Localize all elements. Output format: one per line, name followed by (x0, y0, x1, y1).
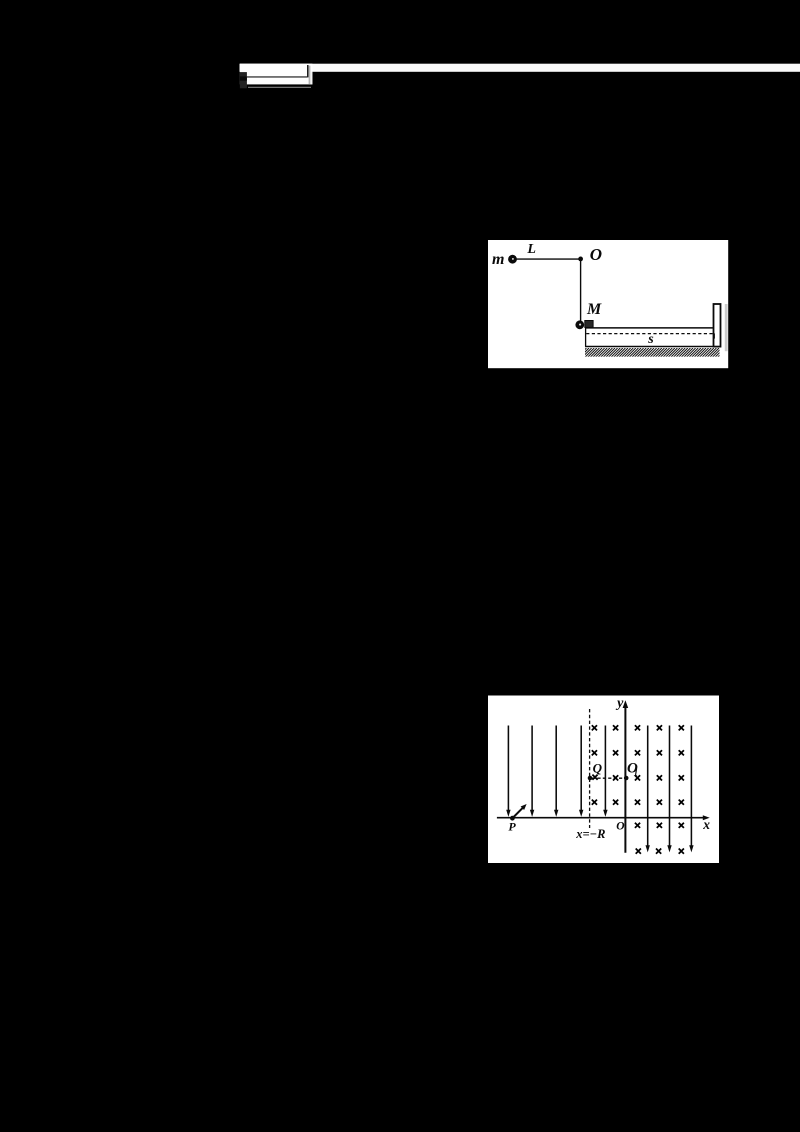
figure 1 white background (488, 240, 728, 368)
B field crosses row 4 (592, 800, 597, 805)
figure 2 white background (488, 696, 719, 864)
x axis (497, 817, 705, 819)
svg-text:P: P (508, 820, 516, 834)
x axis arrowhead (703, 815, 710, 820)
ball m (508, 255, 517, 264)
point O1 dot (624, 776, 629, 781)
lower ball (575, 320, 584, 329)
B field crosses row 2 (592, 750, 597, 755)
dark ball+block remnant (240, 72, 247, 88)
point Q dot (588, 776, 593, 781)
point P dot (510, 816, 515, 821)
board top line (585, 327, 713, 329)
y axis arrowhead (623, 700, 629, 708)
svg-text:s: s (647, 332, 654, 347)
svg-text:M: M (586, 301, 602, 318)
svg-text:y: y (615, 696, 624, 711)
dashed horizontal Q to O1 (592, 777, 626, 779)
B field crosses row 5 (635, 823, 640, 828)
string vertical (580, 259, 582, 325)
board dashed line s (586, 333, 713, 335)
velocity arrow at P (513, 807, 524, 818)
white fragment block (240, 64, 313, 85)
svg-text:m: m (492, 251, 504, 268)
wall gray shadow (309, 66, 311, 84)
dashed line end tick in wall (713, 333, 715, 338)
E field arrow 1 (507, 726, 509, 812)
white strip across top (240, 64, 800, 72)
track line of fragment (247, 76, 307, 77)
B field crosses row 6 (636, 849, 641, 854)
block M (585, 321, 593, 328)
B field crosses row 3 (592, 775, 597, 780)
dashed vertical line x=-R (589, 709, 591, 828)
E field arrow 2 (531, 726, 533, 812)
wall line of fragment (307, 65, 309, 77)
E field arrow 3 (555, 726, 557, 812)
B field crosses row 1 (592, 725, 597, 730)
board left edge (585, 328, 587, 347)
gray strip right of wall (725, 304, 728, 351)
long field arrow 2 right of axis (669, 726, 671, 848)
svg-text:x=−R: x=−R (575, 827, 605, 841)
darker core of remnant (240, 76, 247, 80)
wall white fill below strip (310, 72, 312, 85)
y axis (624, 706, 626, 853)
svg-text:O: O (590, 245, 602, 264)
svg-text:L: L (526, 242, 536, 257)
svg-text:x: x (702, 817, 710, 832)
string horizontal (517, 258, 581, 260)
fragment gray sliver line (248, 86, 311, 89)
E field arrow 4 (580, 726, 582, 812)
ground hatching (577, 348, 727, 357)
long field arrow 3 right of axis (690, 726, 692, 848)
svg-text:Q: Q (593, 761, 603, 776)
pivot dot O (578, 257, 583, 262)
board bottom line (585, 346, 721, 348)
svg-text:O: O (616, 821, 624, 833)
wall at right (714, 304, 721, 347)
long field arrow 1 right of axis (647, 726, 649, 848)
E field arrow 5 (604, 726, 606, 812)
